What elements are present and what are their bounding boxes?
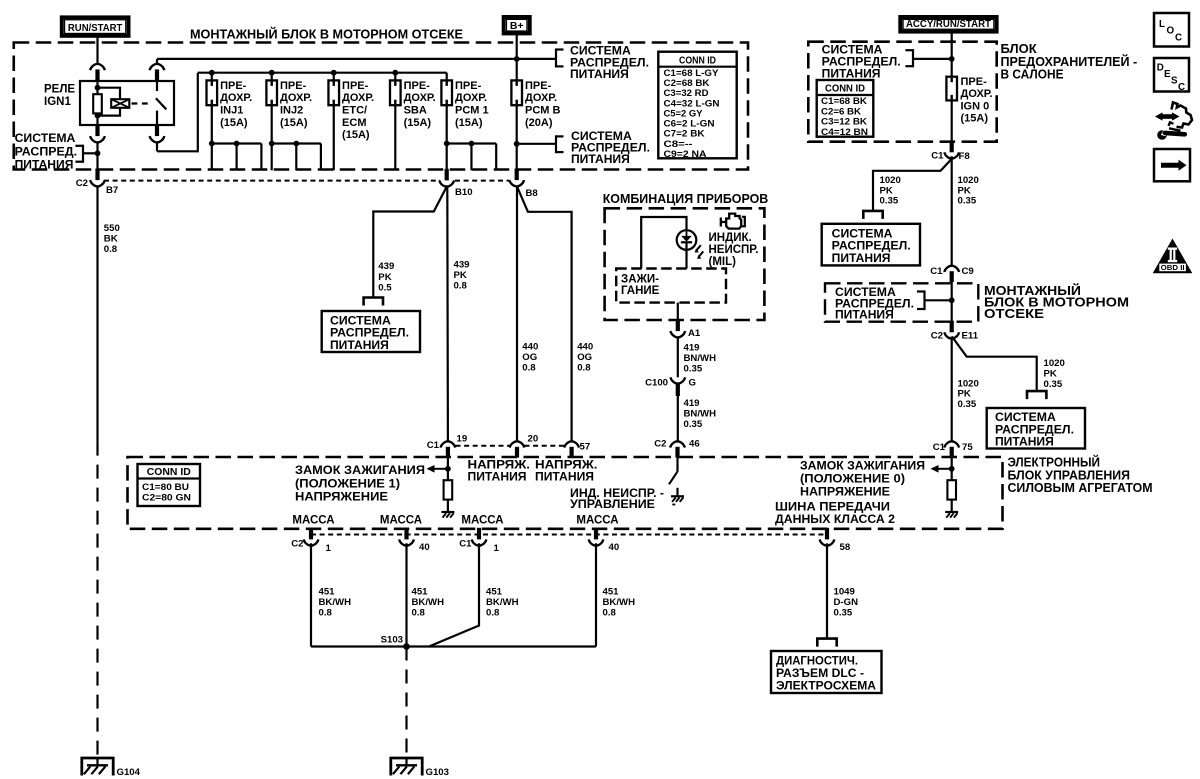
- svg-text:S: S: [1171, 76, 1178, 87]
- svg-text:IGN 0: IGN 0: [961, 100, 990, 112]
- svg-text:A1: A1: [688, 328, 701, 339]
- svg-text:(15А): (15А): [342, 129, 370, 141]
- svg-text:(15А): (15А): [220, 117, 248, 129]
- svg-text:419: 419: [684, 342, 700, 353]
- svg-text:0.35: 0.35: [834, 608, 853, 619]
- svg-text:ПИТАНИЯ: ПИТАНИЯ: [822, 68, 881, 80]
- svg-text:C9=2 NA: C9=2 NA: [664, 148, 707, 159]
- svg-text:CONN ID: CONN ID: [679, 55, 716, 66]
- svg-text:ПРЕ-: ПРЕ-: [404, 80, 431, 92]
- svg-text:НАПРЯЖЕНИЕ: НАПРЯЖЕНИЕ: [800, 487, 890, 499]
- svg-text:O: O: [1167, 26, 1175, 37]
- svg-text:ДИАГНОСТИЧ.: ДИАГНОСТИЧ.: [776, 656, 858, 668]
- svg-text:B8: B8: [526, 188, 539, 199]
- svg-text:C4=12 BN: C4=12 BN: [821, 126, 868, 137]
- svg-text:РАСПРЕДЕЛ.: РАСПРЕДЕЛ.: [570, 57, 649, 69]
- svg-text:СИСТЕМА: СИСТЕМА: [571, 131, 632, 143]
- svg-text:ОТСЕКЕ: ОТСЕКЕ: [984, 306, 1044, 321]
- svg-text:ПРЕ-: ПРЕ-: [961, 76, 988, 88]
- svg-text:ПРЕ-: ПРЕ-: [455, 80, 482, 92]
- svg-text:РАСПРЕДЕЛ.: РАСПРЕДЕЛ.: [330, 328, 409, 340]
- svg-text:(15А): (15А): [961, 113, 989, 125]
- svg-text:C2: C2: [291, 539, 303, 550]
- svg-text:C1=80 BU: C1=80 BU: [142, 481, 189, 492]
- svg-text:C1: C1: [933, 442, 946, 453]
- svg-text:МАССА: МАССА: [380, 515, 422, 527]
- svg-text:0.8: 0.8: [319, 608, 333, 619]
- svg-text:E: E: [1164, 69, 1171, 80]
- svg-text:451: 451: [486, 587, 503, 598]
- svg-text:D: D: [1157, 63, 1164, 74]
- svg-text:(ПОЛОЖЕНИЕ 1): (ПОЛОЖЕНИЕ 1): [295, 478, 400, 490]
- svg-text:C: C: [1178, 82, 1185, 93]
- svg-text:75: 75: [962, 442, 973, 453]
- svg-text:C100: C100: [645, 378, 668, 389]
- svg-text:В САЛОНЕ: В САЛОНЕ: [1001, 67, 1064, 82]
- svg-text:ACCY/RUN/START: ACCY/RUN/START: [906, 19, 991, 30]
- svg-text:ПИТАНИЯ: ПИТАНИЯ: [330, 340, 389, 352]
- svg-text:B+: B+: [510, 20, 524, 32]
- svg-text:ПРЕ-: ПРЕ-: [220, 80, 247, 92]
- svg-text:1: 1: [326, 543, 332, 554]
- svg-text:G104: G104: [117, 767, 141, 778]
- svg-text:G103: G103: [426, 767, 449, 778]
- svg-text:РАСПРЕДЕЛ.: РАСПРЕДЕЛ.: [832, 241, 911, 253]
- svg-text:ДОХР.: ДОХР.: [280, 92, 312, 104]
- svg-text:СИСТЕМА: СИСТЕМА: [822, 45, 883, 57]
- svg-text:D-GN: D-GN: [834, 597, 859, 608]
- svg-text:СИСТЕМА: СИСТЕМА: [15, 133, 76, 145]
- svg-text:ЗАЖИ-: ЗАЖИ-: [621, 273, 659, 285]
- svg-text:СИЛОВЫМ АГРЕГАТОМ: СИЛОВЫМ АГРЕГАТОМ: [1008, 480, 1153, 495]
- svg-text:PCM 1: PCM 1: [455, 105, 489, 117]
- svg-text:F8: F8: [959, 151, 971, 162]
- svg-text:1049: 1049: [834, 586, 855, 597]
- svg-text:ШИНА ПЕРЕДАЧИ: ШИНА ПЕРЕДАЧИ: [775, 502, 890, 514]
- svg-text:C1: C1: [931, 151, 944, 162]
- svg-text:ПИТАНИЯ: ПИТАНИЯ: [570, 69, 629, 81]
- svg-text:E11: E11: [962, 331, 979, 342]
- svg-text:BK/WH: BK/WH: [412, 597, 445, 608]
- svg-text:0.35: 0.35: [958, 399, 977, 410]
- svg-text:ДОХР.: ДОХР.: [342, 92, 374, 104]
- svg-text:НАПРЯЖЕНИЕ: НАПРЯЖЕНИЕ: [295, 491, 388, 503]
- svg-text:PCM B: PCM B: [525, 105, 561, 117]
- svg-text:C2: C2: [931, 331, 943, 342]
- svg-text:ECM: ECM: [342, 117, 366, 129]
- svg-text:0.35: 0.35: [684, 364, 703, 375]
- svg-text:BK/WH: BK/WH: [603, 597, 636, 608]
- svg-text:НЕИСПР.: НЕИСПР.: [709, 244, 759, 256]
- svg-text:RUN/START: RUN/START: [68, 22, 123, 34]
- svg-text:РАСПРЕДЕЛ.: РАСПРЕДЕЛ.: [822, 56, 901, 68]
- svg-text:СИСТЕМА: СИСТЕМА: [330, 316, 391, 328]
- svg-text:G: G: [689, 378, 696, 389]
- svg-text:BK: BK: [104, 233, 118, 244]
- svg-text:0.35: 0.35: [1044, 379, 1063, 390]
- svg-text:ЗАМОК ЗАЖИГАНИЯ: ЗАМОК ЗАЖИГАНИЯ: [295, 465, 425, 477]
- svg-text:PK: PK: [378, 272, 391, 283]
- svg-text:ПРЕ-: ПРЕ-: [525, 80, 552, 92]
- svg-text:ПИТАНИЯ: ПИТАНИЯ: [995, 437, 1054, 449]
- svg-text:МАССА: МАССА: [461, 515, 503, 527]
- svg-text:CONN ID: CONN ID: [147, 467, 191, 478]
- svg-text:ПИТАНИЯ: ПИТАНИЯ: [15, 159, 74, 171]
- svg-text:PK: PK: [454, 270, 467, 281]
- svg-text:СИСТЕМА: СИСТЕМА: [832, 229, 893, 241]
- svg-text:СИСТЕМА: СИСТЕМА: [570, 46, 631, 58]
- svg-text:ДОХР.: ДОХР.: [455, 92, 487, 104]
- svg-text:0.8: 0.8: [603, 608, 617, 619]
- svg-text:440: 440: [577, 342, 593, 353]
- svg-text:OG: OG: [577, 352, 592, 363]
- svg-text:439: 439: [454, 259, 470, 270]
- svg-text:419: 419: [684, 398, 700, 409]
- svg-text:BK/WH: BK/WH: [486, 597, 519, 608]
- svg-text:0.8: 0.8: [104, 244, 118, 255]
- svg-text:IGN1: IGN1: [44, 96, 71, 108]
- svg-text:0.8: 0.8: [454, 281, 468, 292]
- svg-text:58: 58: [840, 542, 851, 553]
- svg-text:440: 440: [522, 342, 538, 353]
- svg-text:550: 550: [104, 223, 120, 234]
- svg-text:(ПОЛОЖЕНИЕ 0): (ПОЛОЖЕНИЕ 0): [800, 474, 905, 486]
- svg-text:BN/WH: BN/WH: [684, 353, 717, 364]
- svg-text:РАСПРЕДЕЛ.: РАСПРЕДЕЛ.: [995, 424, 1074, 436]
- svg-text:РАСПРЕДЕЛ.: РАСПРЕДЕЛ.: [571, 142, 650, 154]
- svg-text:BK/WH: BK/WH: [319, 597, 352, 608]
- svg-text:ПИТАНИЯ: ПИТАНИЯ: [468, 471, 527, 483]
- svg-text:L: L: [1159, 19, 1165, 30]
- svg-text:РАЗЪЕМ DLC -: РАЗЪЕМ DLC -: [776, 668, 864, 680]
- svg-text:(15А): (15А): [404, 117, 432, 129]
- svg-text:ДОХР.: ДОХР.: [961, 88, 993, 100]
- svg-text:SBA: SBA: [404, 105, 427, 117]
- svg-text:C1: C1: [427, 440, 440, 451]
- svg-text:B10: B10: [455, 187, 473, 198]
- svg-text:439: 439: [378, 261, 394, 272]
- svg-text:B7: B7: [106, 185, 118, 196]
- svg-text:0.35: 0.35: [880, 196, 899, 207]
- svg-text:46: 46: [689, 439, 700, 450]
- svg-text:C9: C9: [962, 266, 974, 277]
- svg-text:ДАННЫХ КЛАССА 2: ДАННЫХ КЛАССА 2: [775, 514, 895, 526]
- svg-text:CONN ID: CONN ID: [825, 84, 865, 95]
- svg-text:ПРЕ-: ПРЕ-: [342, 80, 369, 92]
- svg-text:C1: C1: [459, 539, 472, 550]
- svg-text:0.8: 0.8: [577, 363, 591, 374]
- svg-text:0.8: 0.8: [522, 363, 536, 374]
- svg-text:C2=80 GN: C2=80 GN: [142, 491, 191, 502]
- svg-text:C2: C2: [76, 178, 88, 189]
- svg-text:УПРАВЛЕНИЕ: УПРАВЛЕНИЕ: [570, 499, 655, 511]
- svg-text:СИСТЕМА: СИСТЕМА: [835, 287, 896, 299]
- svg-text:0.8: 0.8: [486, 608, 500, 619]
- svg-text:ИНДИК.: ИНДИК.: [709, 232, 752, 244]
- svg-text:C: C: [1175, 33, 1182, 44]
- svg-text:НАПРЯЖ.: НАПРЯЖ.: [535, 459, 598, 471]
- svg-text:ПИТАНИЯ: ПИТАНИЯ: [835, 310, 894, 322]
- svg-text:ГАНИЕ: ГАНИЕ: [621, 285, 660, 297]
- svg-text:57: 57: [580, 442, 591, 453]
- svg-text:INJ1: INJ1: [220, 105, 243, 117]
- svg-text:(15А): (15А): [455, 117, 483, 129]
- svg-text:40: 40: [419, 542, 430, 553]
- svg-text:BN/WH: BN/WH: [684, 408, 717, 419]
- svg-text:МАССА: МАССА: [292, 515, 334, 527]
- svg-text:МОНТАЖНЫЙ БЛОК В МОТОРНОМ ОТСЕ: МОНТАЖНЫЙ БЛОК В МОТОРНОМ ОТСЕКЕ: [190, 27, 463, 42]
- svg-text:ETC/: ETC/: [342, 105, 367, 117]
- svg-text:19: 19: [457, 434, 468, 445]
- svg-text:ДОХР.: ДОХР.: [525, 92, 557, 104]
- svg-text:0.5: 0.5: [378, 282, 392, 293]
- svg-text:ПИТАНИЯ: ПИТАНИЯ: [535, 471, 594, 483]
- svg-text:C1: C1: [930, 266, 943, 277]
- svg-text:ЗАМОК ЗАЖИГАНИЯ: ЗАМОК ЗАЖИГАНИЯ: [800, 461, 925, 473]
- svg-text:451: 451: [412, 587, 429, 598]
- svg-text:(MIL): (MIL): [709, 256, 737, 268]
- svg-text:0.8: 0.8: [412, 608, 426, 619]
- svg-text:КОМБИНАЦИЯ ПРИБОРОВ: КОМБИНАЦИЯ ПРИБОРОВ: [603, 191, 769, 206]
- svg-text:ЭЛЕКТРОСХЕМА: ЭЛЕКТРОСХЕМА: [776, 681, 876, 693]
- svg-text:НАПРЯЖ.: НАПРЯЖ.: [468, 459, 531, 471]
- svg-text:МАССА: МАССА: [576, 515, 618, 527]
- svg-text:(15А): (15А): [280, 117, 308, 129]
- svg-text:451: 451: [319, 587, 336, 598]
- svg-text:0.35: 0.35: [684, 419, 703, 430]
- svg-text:РАСПРЕД.: РАСПРЕД.: [15, 146, 78, 158]
- svg-text:0.35: 0.35: [958, 196, 977, 207]
- svg-text:РЕЛЕ: РЕЛЕ: [44, 84, 75, 96]
- svg-text:ПРЕ-: ПРЕ-: [280, 80, 307, 92]
- svg-text:ДОХР.: ДОХР.: [404, 92, 436, 104]
- svg-text:1: 1: [494, 543, 500, 554]
- svg-text:ПИТАНИЯ: ПИТАНИЯ: [832, 253, 891, 265]
- svg-text:INJ2: INJ2: [280, 105, 303, 117]
- svg-text:СИСТЕМА: СИСТЕМА: [995, 412, 1056, 424]
- svg-text:OBD II: OBD II: [1161, 265, 1185, 272]
- svg-text:C2: C2: [654, 439, 666, 450]
- svg-text:40: 40: [609, 542, 620, 553]
- svg-text:451: 451: [603, 587, 620, 598]
- svg-text:(20А): (20А): [525, 117, 553, 129]
- svg-text:S103: S103: [381, 635, 403, 646]
- svg-text:ПИТАНИЯ: ПИТАНИЯ: [571, 154, 630, 166]
- svg-text:ДОХР.: ДОХР.: [220, 92, 252, 104]
- svg-text:OG: OG: [522, 352, 537, 363]
- svg-text:20: 20: [528, 434, 539, 445]
